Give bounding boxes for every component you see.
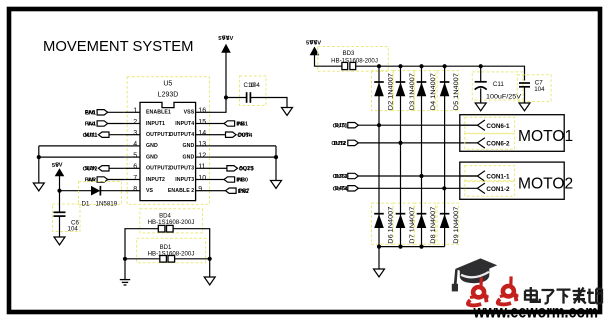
ground symbol bbox=[271, 181, 282, 189]
wire pin5 to left bbox=[39, 156, 125, 158]
junction dot bbox=[57, 189, 61, 193]
svg-text:14: 14 bbox=[198, 130, 206, 137]
port flag pin2 bbox=[97, 121, 108, 126]
port flag pin7 bbox=[97, 177, 108, 182]
diode D6 dashed outline bbox=[372, 203, 394, 244]
wire pin9 to flag bbox=[211, 190, 225, 192]
diode D1 symbol bbox=[91, 186, 100, 196]
svg-text:OUTPUT4: OUTPUT4 bbox=[169, 132, 194, 138]
wire pin7 to flag bbox=[108, 179, 125, 181]
svg-text:PA6: PA6 bbox=[85, 110, 95, 116]
svg-text:VS: VS bbox=[146, 188, 154, 194]
wire pin10 to flag bbox=[211, 179, 224, 181]
U5 pin 6 stub bbox=[125, 167, 140, 169]
net label IN1 (pin1) bbox=[85, 110, 96, 116]
svg-text:D1: D1 bbox=[82, 200, 90, 207]
junction dot D8/bus bbox=[419, 245, 423, 249]
ground symbol bottom diodes bbox=[374, 269, 385, 277]
svg-text:INPUT1: INPUT1 bbox=[146, 121, 165, 127]
svg-text:1N5819: 1N5819 bbox=[96, 200, 118, 207]
junction dot bbox=[37, 155, 41, 159]
wire row1 to CON6-1 bbox=[358, 124, 477, 126]
capacitor C7 dashed outline bbox=[517, 75, 551, 102]
port flag pin3 bbox=[98, 132, 109, 137]
capacitor C11 dashed outline bbox=[472, 72, 523, 100]
svg-text:5V: 5V bbox=[314, 40, 321, 46]
C10 refdes + value overlapped bbox=[244, 82, 261, 89]
junction dot D6/bus bbox=[377, 245, 381, 249]
wire 5V bus bbox=[356, 66, 525, 80]
wire bus to C11 bbox=[480, 66, 482, 81]
net label OUT3 row bbox=[333, 174, 348, 180]
wire pin14 to flag bbox=[211, 134, 225, 136]
svg-text:D4 1N4007: D4 1N4007 bbox=[430, 73, 437, 110]
junction dot row4/D5 bbox=[442, 186, 446, 190]
CON6-1 chevron pin bbox=[477, 120, 485, 130]
svg-text:M11I: M11I bbox=[85, 133, 98, 139]
wire bus to ground bbox=[378, 247, 380, 269]
diode D6 symbol bbox=[374, 213, 384, 215]
power 5V arrow bbox=[55, 168, 65, 176]
pin numbers right 16-9 bbox=[198, 108, 206, 193]
U5 pin 10 stub bbox=[196, 179, 211, 181]
svg-text:D25I: D25I bbox=[334, 141, 346, 147]
wire row3 inside box bbox=[460, 175, 478, 177]
ferrite bead BD4 dashed outline bbox=[140, 209, 203, 233]
power 5V arrow top bbox=[221, 44, 231, 53]
port flag OUT3 bbox=[348, 173, 359, 178]
junction dot BD1 left bbox=[123, 257, 127, 261]
U5 pin 1 stub bbox=[125, 111, 140, 113]
wire row3 to CON1-1 bbox=[358, 175, 477, 177]
svg-text:5V: 5V bbox=[226, 36, 233, 42]
svg-text:U5: U5 bbox=[163, 81, 172, 88]
wire BD4 to right bbox=[173, 229, 210, 277]
pin names right column bbox=[168, 110, 195, 194]
junction dot bbox=[224, 95, 228, 99]
svg-text:INPUT3: INPUT3 bbox=[175, 177, 194, 183]
watermark chongchong character 1 bbox=[468, 277, 489, 305]
wire pin6 to flag bbox=[109, 167, 125, 169]
CON6-1 dashed outline bbox=[465, 117, 515, 133]
U5 pin 4 stub bbox=[125, 145, 140, 147]
svg-text:8: 8 bbox=[133, 186, 137, 193]
ground symbol (open triangle) bbox=[33, 183, 44, 191]
CON1-1 chevron pin bbox=[477, 171, 485, 181]
wire vertical join bbox=[38, 146, 40, 183]
svg-text:D5 1N4007: D5 1N4007 bbox=[453, 73, 460, 110]
port flag pin14 bbox=[226, 132, 237, 137]
wire pin2 to flag bbox=[108, 123, 125, 125]
ferrite bead BD1 symbol bbox=[160, 256, 167, 263]
net label EN2 (pin9) bbox=[238, 189, 250, 195]
diode D8 dashed outline bbox=[414, 203, 436, 244]
U5 pin 8 stub bbox=[125, 190, 140, 192]
capacitor C7 symbol bbox=[519, 82, 530, 84]
wire pin12 to right bbox=[211, 156, 276, 158]
pin numbers left 1-8 bbox=[133, 108, 137, 193]
wire C11 to ground bbox=[480, 88, 482, 103]
wire 5V arrow to BD3 bbox=[315, 55, 342, 67]
svg-text:GND: GND bbox=[146, 143, 158, 149]
svg-text:C11: C11 bbox=[493, 81, 504, 88]
svg-text:D35I: D35I bbox=[335, 174, 347, 180]
svg-text:PB7: PB7 bbox=[239, 189, 250, 195]
junction dot row3/D4 bbox=[419, 174, 423, 178]
wire to D1 anode bbox=[60, 190, 92, 192]
U5 pin 14 stub bbox=[196, 134, 211, 136]
U5 pin 15 stub bbox=[196, 123, 211, 125]
svg-text:MOVEMENT SYSTEM: MOVEMENT SYSTEM bbox=[43, 39, 193, 55]
svg-text:5V: 5V bbox=[55, 163, 62, 169]
net label OUT1 row bbox=[333, 123, 348, 129]
ground symbol BD right bbox=[204, 277, 215, 285]
svg-text:D45I: D45I bbox=[335, 186, 347, 192]
CON1-2 chevron pin bbox=[477, 183, 485, 193]
ferrite bead BD1 dashed outline bbox=[137, 238, 206, 263]
wire bottom ground bus bbox=[379, 246, 445, 248]
junction dot D5 bbox=[443, 64, 447, 68]
port flag pin1 bbox=[97, 110, 108, 115]
U5 pin 13 stub bbox=[196, 145, 211, 147]
net label IN2 (pin7) bbox=[85, 177, 96, 183]
svg-text:11: 11 bbox=[198, 164, 205, 171]
svg-text:www.eeworm.com: www.eeworm.com bbox=[473, 301, 598, 319]
diode D9 dashed outline bbox=[437, 203, 459, 244]
ferrite bead BD4 symbol bbox=[158, 225, 165, 232]
U5 pin 5 stub bbox=[125, 156, 140, 158]
svg-text:INPUT2: INPUT2 bbox=[146, 177, 165, 183]
svg-text:16: 16 bbox=[198, 108, 206, 115]
svg-text:MOTO2: MOTO2 bbox=[518, 176, 573, 193]
connector MOTO2 box bbox=[460, 162, 564, 199]
diode D3 dashed outline bbox=[393, 71, 415, 111]
capacitor C11 symbol (polarized) bbox=[475, 81, 487, 83]
wire node to C10 bbox=[226, 97, 246, 99]
svg-text:MOTO1: MOTO1 bbox=[518, 128, 573, 145]
power 5V arrow BD3 bbox=[310, 47, 320, 56]
CON1-1 dashed outline bbox=[465, 166, 515, 182]
wire row2 to CON6-2 bbox=[358, 142, 477, 144]
U5 pin 12 stub bbox=[196, 156, 211, 158]
net label IN1 (pin2) bbox=[85, 121, 96, 127]
svg-text:D3 1N4007: D3 1N4007 bbox=[409, 73, 416, 110]
wire row4 to CON1-2 bbox=[358, 187, 477, 189]
svg-text:OUTPUT2: OUTPUT2 bbox=[146, 166, 171, 172]
wire row1 inside box bbox=[460, 124, 478, 126]
svg-text:7: 7 bbox=[133, 175, 137, 182]
CON1-2 dashed outline bbox=[465, 181, 515, 197]
diode D8 symbol bbox=[417, 213, 427, 215]
wire pin15 to flag bbox=[211, 123, 224, 125]
U5 pin 11 stub bbox=[196, 167, 211, 169]
U5 pin 2 stub bbox=[125, 123, 140, 125]
ground symbol below C11 bbox=[475, 103, 486, 111]
diode D2 column wire bbox=[378, 66, 380, 125]
diode D6 column wire bbox=[378, 125, 380, 246]
wire C10 to ground bbox=[250, 98, 287, 108]
svg-text:6: 6 bbox=[133, 164, 137, 171]
svg-text:GND: GND bbox=[146, 154, 158, 160]
junction dot D7/bus bbox=[398, 245, 402, 249]
diode D9 column wire bbox=[444, 188, 446, 246]
wire D1 cathode to pin8 bbox=[100, 190, 124, 192]
junction dot row2/D3 bbox=[398, 141, 402, 145]
svg-text:D8 1N4007: D8 1N4007 bbox=[430, 206, 437, 243]
junction dot D3 bbox=[398, 64, 402, 68]
port flag pin10 bbox=[224, 177, 235, 182]
wire C6 to ground bbox=[59, 216, 61, 237]
capacitor C10 dashed outline bbox=[240, 76, 267, 106]
connector MOTO1 box bbox=[460, 115, 564, 152]
ground symbol below C7 bbox=[519, 103, 530, 111]
net label OUT4 row bbox=[333, 186, 349, 192]
diode D7 dashed outline bbox=[393, 203, 415, 244]
net label OUT4 (pin14) bbox=[237, 133, 253, 139]
svg-text:OUTPUT3: OUTPUT3 bbox=[169, 166, 194, 172]
svg-text:HB-1S1608-200J: HB-1S1608-200J bbox=[331, 58, 378, 65]
svg-text:L293D: L293D bbox=[158, 92, 179, 99]
diode D4 column wire bbox=[421, 66, 423, 176]
svg-text:PB0: PB0 bbox=[237, 177, 248, 183]
diode D7 symbol bbox=[396, 213, 406, 215]
capacitor C6 dashed outline bbox=[53, 204, 81, 232]
U5 pin 9 stub bbox=[196, 190, 211, 192]
ground symbol right of C10 bbox=[282, 108, 293, 116]
watermark graduation cap bbox=[452, 258, 497, 291]
svg-text:OUTPUT1: OUTPUT1 bbox=[146, 132, 171, 138]
junction dot row1/D2 bbox=[377, 123, 381, 127]
svg-text:INPUT4: INPUT4 bbox=[175, 121, 194, 127]
watermark chongchong character 2 bbox=[498, 276, 519, 304]
svg-text:3: 3 bbox=[133, 130, 137, 137]
pin names left column bbox=[146, 110, 171, 194]
svg-text:GND: GND bbox=[182, 143, 194, 149]
svg-text:ENABLE 2: ENABLE 2 bbox=[168, 188, 194, 194]
net label OUT1 (pin3) bbox=[83, 133, 98, 139]
svg-text:13: 13 bbox=[198, 141, 206, 148]
diode D4 dashed outline bbox=[414, 71, 436, 111]
diode D4 symbol bbox=[417, 81, 427, 83]
capacitor C6 symbol bbox=[54, 211, 66, 213]
wire pin4 to left bbox=[39, 145, 125, 147]
junction dot bbox=[274, 155, 278, 159]
svg-text:15: 15 bbox=[198, 119, 206, 126]
port flag pin11 bbox=[227, 166, 238, 171]
svg-text:10: 10 bbox=[198, 175, 206, 182]
junction dot BD1 right bbox=[208, 257, 212, 261]
diode D3 symbol bbox=[396, 81, 406, 83]
diode D8 column wire bbox=[421, 176, 423, 247]
svg-text:PB1: PB1 bbox=[237, 121, 248, 127]
svg-text:100uF/25V: 100uF/25V bbox=[486, 93, 522, 100]
port flag OUT1 bbox=[348, 123, 359, 128]
svg-text:ENABLE1: ENABLE1 bbox=[146, 110, 171, 116]
svg-text:D05I: D05I bbox=[238, 133, 250, 139]
IC U5 body bbox=[140, 102, 196, 200]
diode D3 column wire bbox=[400, 66, 402, 143]
diode D5 column wire bbox=[444, 66, 446, 188]
ferrite bead BD3 dashed outline bbox=[318, 47, 389, 72]
net label IN3 (pin10) bbox=[236, 177, 248, 183]
svg-text:104: 104 bbox=[534, 86, 545, 93]
svg-text:CON6-2: CON6-2 bbox=[486, 141, 510, 148]
port flag pin6 bbox=[98, 166, 109, 171]
power 5V label top bbox=[218, 36, 233, 42]
svg-text:5: 5 bbox=[133, 152, 137, 159]
wire left to BD1 bbox=[125, 258, 160, 260]
svg-text:104: 104 bbox=[68, 226, 79, 233]
watermark text dianzi xiazaizhan bbox=[525, 287, 602, 304]
svg-text:HB-1S1608-200J: HB-1S1608-200J bbox=[148, 250, 195, 257]
U5 pin 7 stub bbox=[125, 179, 140, 181]
cap highlight bbox=[461, 272, 489, 277]
port flag pin15 bbox=[224, 121, 235, 126]
svg-text:4: 4 bbox=[133, 141, 137, 148]
junction dot D2 bbox=[377, 64, 381, 68]
wire BD1 to right bbox=[175, 258, 210, 260]
diode D9 symbol bbox=[440, 213, 450, 215]
net label OUT2 row bbox=[331, 141, 346, 147]
U5 pin 16 stub bbox=[196, 111, 211, 113]
capacitor C10 symbol bbox=[246, 92, 248, 103]
net label OUT3 (pin11) bbox=[239, 166, 254, 172]
junction dot C11 bbox=[479, 64, 483, 68]
svg-text:BD3: BD3 bbox=[343, 51, 355, 57]
diode D2 dashed outline bbox=[372, 71, 394, 111]
port flag OUT2 bbox=[348, 140, 359, 145]
earth ground symbol bbox=[120, 280, 130, 285]
net label OUT2 (pin6) bbox=[83, 166, 98, 172]
power 5V label bbox=[52, 163, 63, 169]
port flag pin9 bbox=[226, 188, 237, 193]
CON6-2 chevron pin bbox=[477, 138, 485, 148]
junction dot D4 bbox=[419, 64, 423, 68]
U5 dashed outline bbox=[127, 77, 209, 205]
power 5V label BD3 bbox=[306, 40, 321, 46]
wire left to BD4 bbox=[125, 229, 158, 280]
svg-text:1: 1 bbox=[133, 108, 137, 115]
svg-text:12: 12 bbox=[198, 152, 206, 159]
svg-text:GND: GND bbox=[182, 154, 194, 160]
svg-text:PA5: PA5 bbox=[85, 177, 95, 183]
U5 pin 3 stub bbox=[125, 134, 140, 136]
svg-text:5Q2S: 5Q2S bbox=[240, 166, 255, 172]
svg-text:VSS: VSS bbox=[184, 110, 195, 116]
svg-text:D15I: D15I bbox=[335, 123, 347, 129]
CON6-2 dashed outline bbox=[465, 134, 515, 150]
svg-text:PA4: PA4 bbox=[85, 121, 96, 127]
svg-text:D7 1N4007: D7 1N4007 bbox=[409, 206, 416, 243]
svg-text:9: 9 bbox=[198, 186, 202, 193]
wire C7 to ground bbox=[524, 87, 526, 103]
diode D2 symbol bbox=[374, 81, 384, 83]
ferrite bead BD3 symbol bbox=[342, 62, 348, 69]
wire 5V to pin16 bbox=[211, 51, 226, 112]
svg-text:CON1-1: CON1-1 bbox=[486, 174, 510, 181]
diode D5 symbol bbox=[440, 81, 450, 83]
wire vertical join bbox=[275, 146, 277, 181]
diode D5 dashed outline bbox=[437, 71, 459, 111]
svg-text:D9 1N4007: D9 1N4007 bbox=[453, 206, 460, 243]
ground symbol below C6 bbox=[54, 237, 65, 245]
svg-text:CON6-1: CON6-1 bbox=[486, 123, 510, 130]
wire pin1 to flag bbox=[108, 111, 125, 113]
svg-text:5I2K: 5I2K bbox=[85, 166, 97, 172]
svg-text:2: 2 bbox=[133, 119, 137, 126]
wire pin13 to right bbox=[211, 145, 276, 147]
net label IN4 (pin15) bbox=[236, 121, 248, 127]
diode D1 dashed outline bbox=[79, 182, 122, 205]
diode D7 column wire bbox=[400, 143, 402, 247]
svg-text:104: 104 bbox=[250, 82, 261, 89]
svg-text:CON1-2: CON1-2 bbox=[486, 186, 510, 193]
wire 5V node to C6 bbox=[59, 191, 61, 212]
wire pin3 to flag bbox=[109, 134, 125, 136]
wire pin11 to flag bbox=[211, 167, 227, 169]
port flag OUT4 bbox=[348, 186, 359, 191]
